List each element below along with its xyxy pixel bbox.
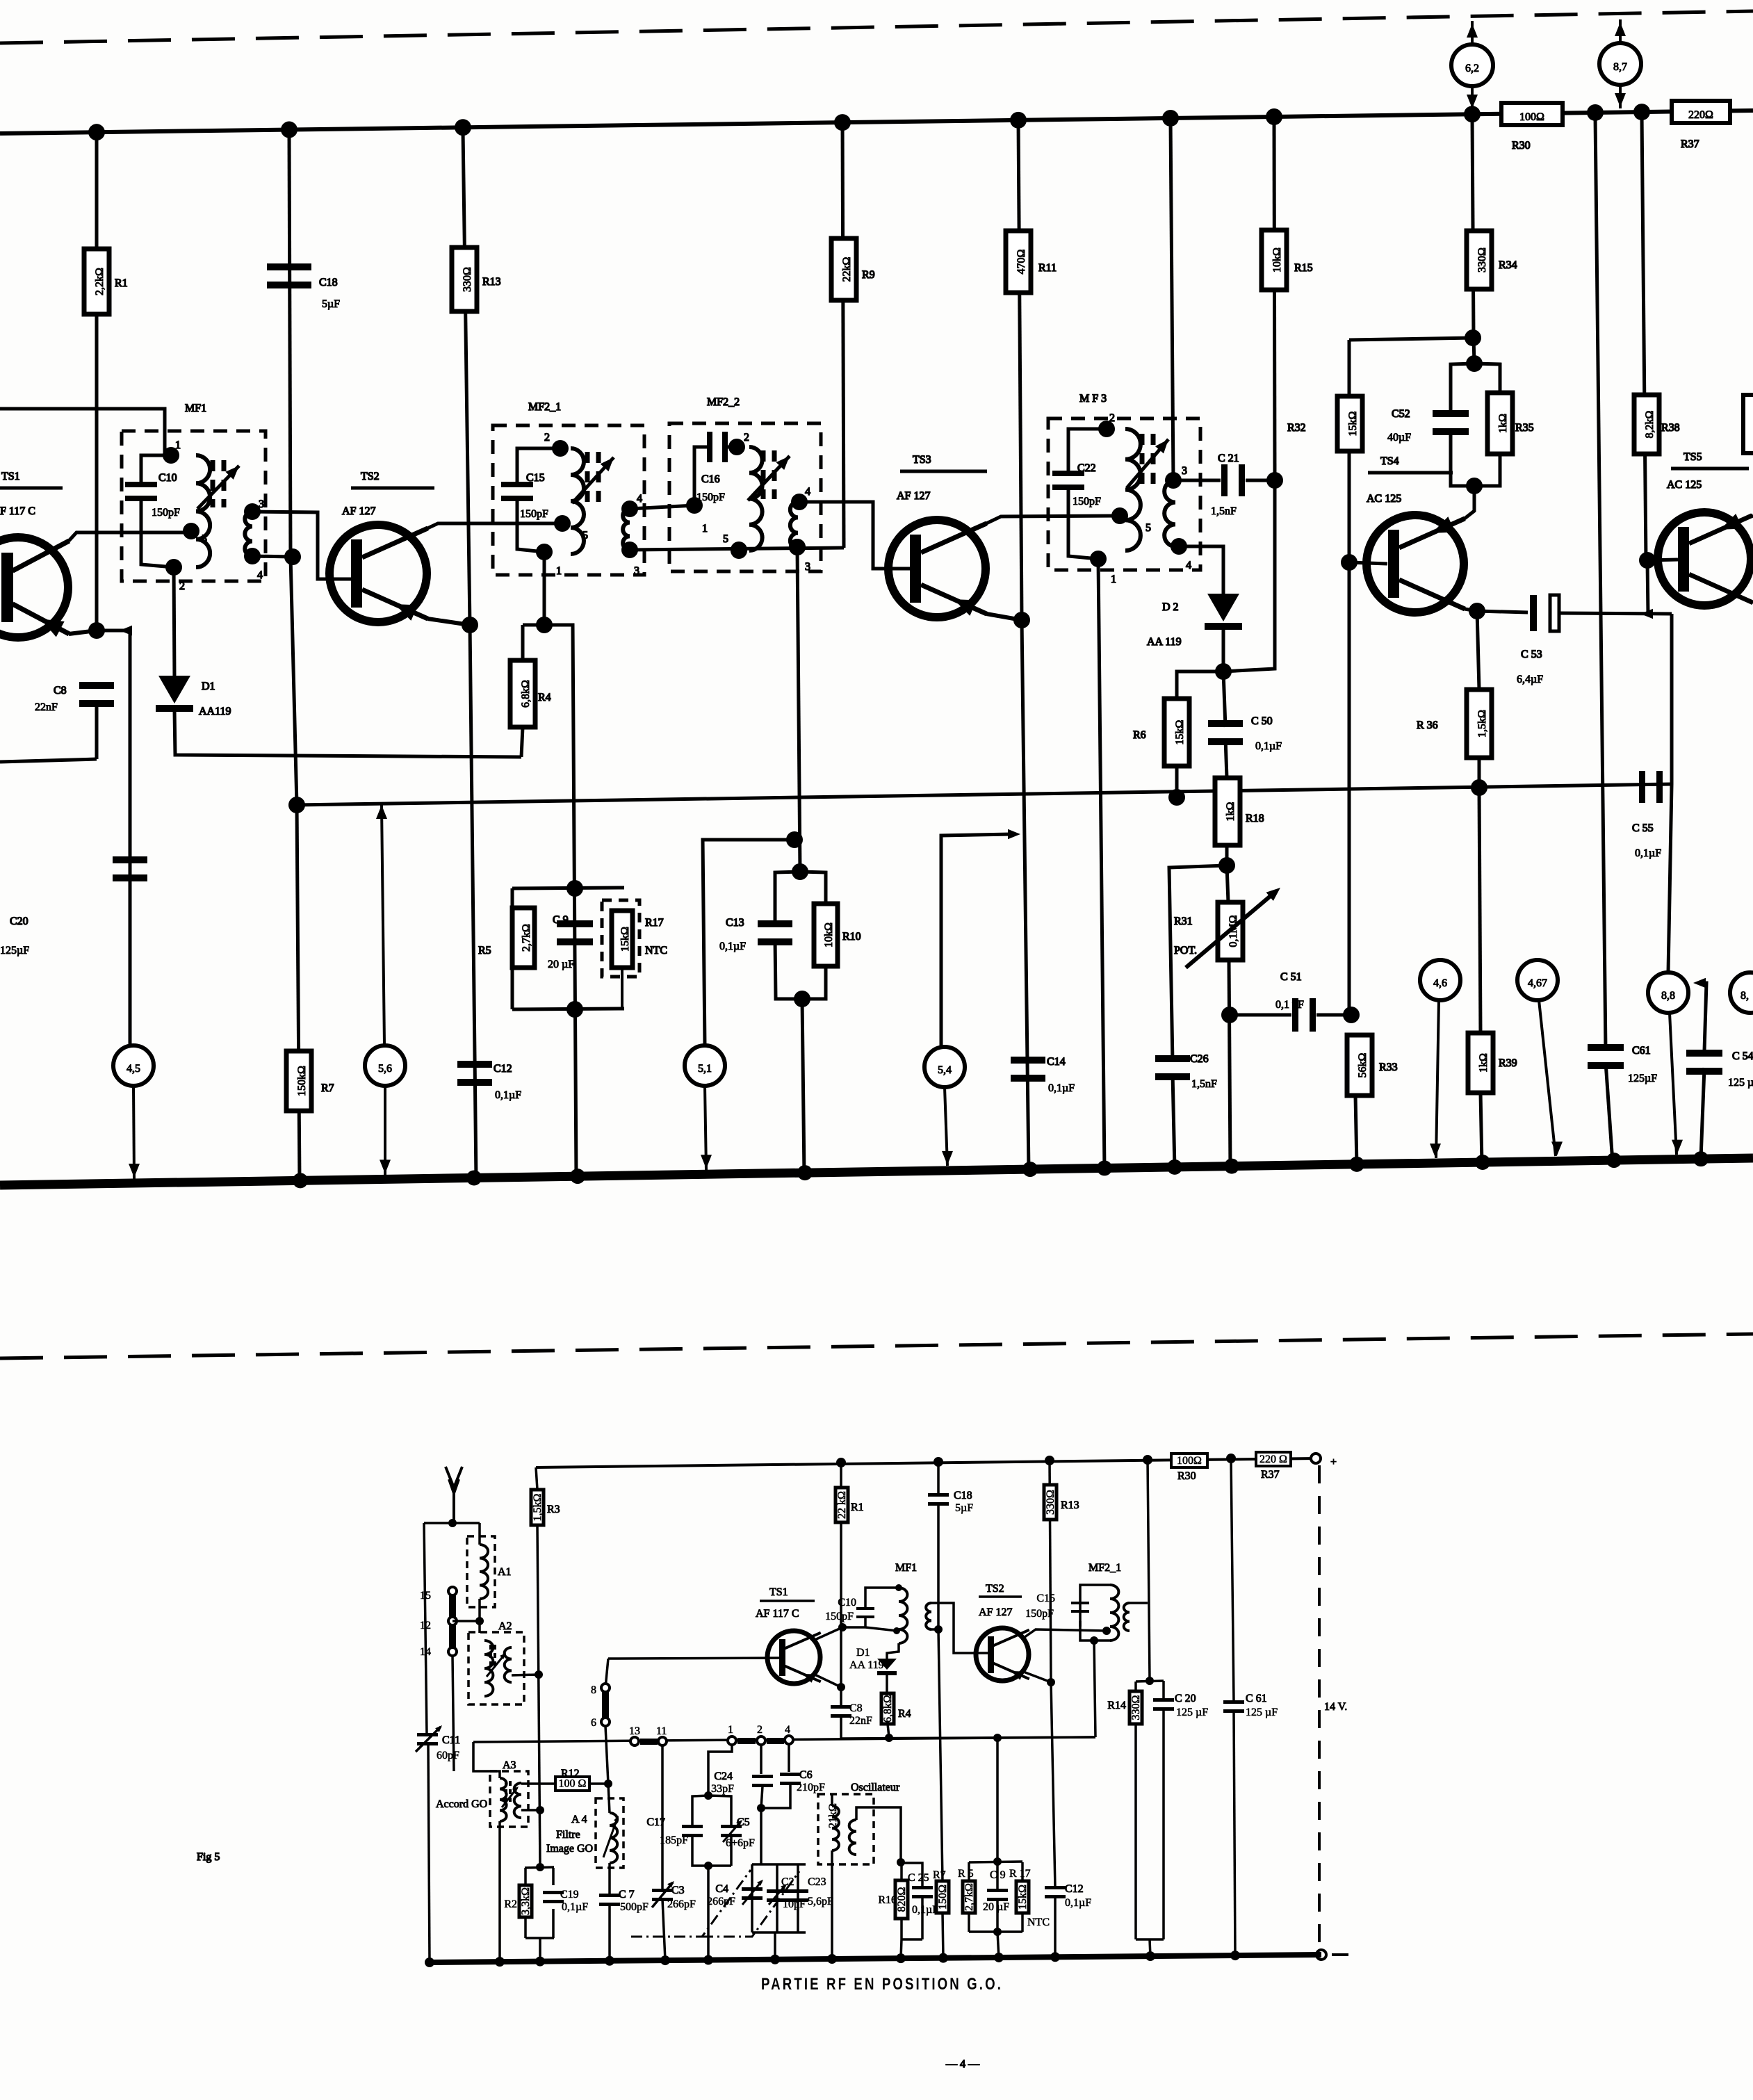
svg-text:C11: C11 (442, 1734, 460, 1746)
wire common line pin3/pin5/pin3 (630, 548, 844, 550)
wire R9 column (842, 118, 844, 548)
wire C54 up to 8,8 arrow (1697, 983, 1706, 1051)
svg-text:C12: C12 (494, 1063, 512, 1075)
svg-text:100Ω: 100Ω (1177, 1455, 1202, 1467)
svg-text:R1: R1 (851, 1501, 864, 1513)
AGC rail horizontal (297, 784, 1672, 805)
resistor R32 15k (1337, 396, 1362, 451)
svg-text:R37: R37 (1261, 1469, 1280, 1481)
junction on ground bus x=2447 (1693, 1151, 1709, 1166)
wire C8 to left rail (95, 700, 99, 759)
svg-text:C23: C23 (808, 1876, 826, 1888)
wire TS5 emitter off page (1751, 601, 1753, 603)
capacitor C14 0,1uF (1011, 1057, 1045, 1064)
svg-text:12: 12 (420, 1620, 431, 1631)
svg-text:R 17: R 17 (1009, 1868, 1031, 1880)
svg-text:4: 4 (637, 493, 642, 505)
capacitor C26 1,5nF (1155, 1055, 1190, 1062)
wire C52 node to TS4 emitter (1465, 486, 1474, 519)
svg-text:AA 119: AA 119 (849, 1659, 884, 1671)
svg-text:100Ω: 100Ω (1519, 111, 1544, 123)
svg-text:C5: C5 (737, 1816, 750, 1828)
capacitor C51 0,1uF to TS4 base (1230, 1014, 1291, 1017)
svg-text:8,8: 8,8 (1661, 990, 1675, 1002)
svg-text:R38: R38 (1661, 422, 1680, 434)
svg-text:5: 5 (202, 533, 207, 545)
svg-text:150pF: 150pF (1073, 496, 1101, 507)
fig5 C4/C2/C23 tuning gang block (752, 1863, 806, 1866)
svg-text:1: 1 (728, 1724, 733, 1736)
resistor R37 220 ohm (1672, 101, 1730, 123)
wire MF3 pin4 to D2 (1179, 546, 1223, 595)
svg-text:56kΩ: 56kΩ (1357, 1052, 1369, 1077)
svg-text:C52: C52 (1392, 408, 1410, 420)
wire R32 top to R34 column (1349, 338, 1473, 340)
capacitor C8 22nF (79, 682, 114, 689)
svg-text:14 V.: 14 V. (1324, 1701, 1347, 1713)
svg-text:4,67: 4,67 (1528, 977, 1547, 989)
wire detector node to R6 (1177, 671, 1223, 699)
wire TS1 emitter diagonal to node (69, 630, 97, 634)
resistor R18 1k (1215, 778, 1240, 845)
svg-text:6,2: 6,2 (1465, 63, 1479, 74)
junction on supply rail x=1465 (1010, 112, 1027, 129)
fig5 capacitor C12 0,1uF (1045, 1886, 1066, 1889)
svg-text:C15: C15 (1036, 1593, 1055, 1604)
fig5 base wire TS1 and terminals 8 6 (608, 1658, 784, 1659)
junction on supply rail x=666 (455, 119, 471, 136)
fig5 14V dashed feed line (1318, 1465, 1321, 1951)
svg-text:C15: C15 (526, 472, 545, 484)
junction on ground bus x=682 (466, 1170, 482, 1185)
svg-text:22kΩ: 22kΩ (841, 257, 853, 282)
svg-text:Accord GO: Accord GO (436, 1798, 487, 1810)
svg-text:2: 2 (1109, 412, 1115, 424)
fig5 coil A3 box Accord GO (490, 1771, 528, 1827)
capacitor C50 0,1uF (1223, 671, 1225, 727)
resistor R39 1k (1479, 788, 1481, 1033)
wire R38 node to C53 node (1647, 560, 1648, 614)
svg-text:AF 127: AF 127 (897, 490, 930, 502)
svg-text:4: 4 (785, 1724, 790, 1736)
svg-text:AF 127: AF 127 (979, 1606, 1012, 1618)
transistor TS1 AF117C (0, 537, 68, 637)
wire TS5 collector off page (1751, 515, 1753, 516)
wire TS2 emitter to R13 column (427, 619, 470, 625)
svg-text:R39: R39 (1499, 1057, 1517, 1069)
svg-text:2: 2 (179, 580, 185, 592)
fig5 antenna junction (424, 1522, 480, 1524)
measurement point 4,6 (1420, 960, 1460, 1000)
fig5 lower AGC rail (841, 1737, 1095, 1739)
wire R18 node to C26 (1169, 865, 1227, 1062)
svg-text:11: 11 (656, 1725, 667, 1737)
wire TS3 collector to MF3 pin5 (986, 516, 1118, 523)
junction on ground bus x=1772 (1224, 1159, 1239, 1174)
measurement point 4,67 (1517, 960, 1558, 1000)
junction on supply rail x=139 (88, 124, 105, 140)
MF2.1 tuning trimmer (585, 452, 590, 502)
svg-text:10kΩ: 10kΩ (823, 922, 835, 947)
svg-text:220 Ω: 220 Ω (1259, 1454, 1287, 1465)
fig5 wire A2 to R3 column (512, 1675, 539, 1675)
svg-text:820Ω: 820Ω (896, 1887, 908, 1912)
diode D2 AA119 (1207, 594, 1239, 621)
svg-text:C8: C8 (54, 685, 67, 697)
svg-text:TS4: TS4 (1380, 455, 1399, 467)
svg-text:Filtre: Filtre (556, 1829, 580, 1841)
wire emitter node to measurement column with arrow (97, 629, 130, 633)
svg-text:8,2kΩ: 8,2kΩ (1644, 410, 1656, 438)
wire TS1 base feed to MF1 pin1 (0, 409, 170, 455)
svg-text:MF1: MF1 (895, 1562, 917, 1574)
wire R13 column (463, 131, 470, 625)
fig5 minus terminal (1316, 1950, 1326, 1960)
svg-text:3: 3 (805, 561, 810, 573)
svg-text:5: 5 (723, 533, 728, 545)
svg-text:2,2kΩ: 2,2kΩ (94, 268, 106, 295)
MF2.1 primary coil (571, 448, 584, 554)
svg-text:10pF: 10pF (783, 1898, 806, 1910)
fig5 wire terminal 12 to A2 (452, 1620, 480, 1622)
capacitor C9 20uF (557, 920, 593, 927)
svg-text:6: 6 (591, 1717, 596, 1729)
wire TS4 collector node (1465, 609, 1477, 611)
capacitor C10 150pF loop (141, 455, 170, 487)
svg-text:22nF: 22nF (35, 701, 58, 713)
svg-text:0,1 uF: 0,1 uF (1275, 999, 1304, 1011)
fig5 coil A1 dashed box (467, 1536, 495, 1607)
wire C61 column from supply (1595, 115, 1606, 1051)
svg-text:22 kΩ: 22 kΩ (836, 1491, 848, 1519)
MF2.2 tuning trimmer (761, 450, 766, 499)
svg-text:C16: C16 (701, 473, 720, 485)
fig5 plus terminal (1311, 1454, 1321, 1463)
svg-text:R4: R4 (898, 1708, 911, 1720)
resistor R6 15k (1164, 699, 1189, 766)
svg-text:330Ω: 330Ω (462, 267, 473, 292)
svg-text:C18: C18 (319, 277, 338, 288)
svg-text:8,: 8, (1740, 990, 1749, 1002)
svg-text:0,1µF: 0,1µF (495, 1089, 521, 1101)
svg-text:POT.: POT. (1174, 945, 1197, 957)
resistor R5 2,7k (511, 888, 514, 908)
arrow into ground bus x=2240 (1551, 1141, 1563, 1155)
wire MF1 pin2 to D1 (174, 567, 174, 678)
junction on ground bus x=1690 (1167, 1159, 1182, 1175)
IF transformer MF3 dashed box (1048, 418, 1200, 570)
junction on ground bus x=1482 (1022, 1162, 1038, 1177)
svg-text:AC 125: AC 125 (1667, 479, 1702, 491)
svg-text:125µF: 125µF (0, 945, 29, 957)
svg-text:D1: D1 (202, 681, 215, 692)
svg-text:125 µF: 125 µF (1176, 1707, 1208, 1718)
wire R38 column (1642, 114, 1646, 560)
resistor R10 10k (814, 904, 838, 966)
svg-text:C14: C14 (1047, 1056, 1066, 1068)
svg-text:6,8kΩ: 6,8kΩ (520, 680, 532, 708)
fig5 MF1 secondary coil (926, 1603, 931, 1629)
svg-text:R9: R9 (862, 269, 875, 281)
top dashed page-border line (0, 11, 1753, 43)
measurement point 5,4 with arrow to column (941, 834, 1011, 1045)
fig5 capacitor C7 500pF (599, 1894, 620, 1897)
fig5 resistor R13 330 column (1050, 1460, 1051, 1682)
fig5 resistor R4 6,8k (881, 1693, 894, 1724)
capacitor C53 6,4uF (1477, 611, 1528, 612)
wire MF1 pin4 to AGC column (252, 556, 293, 557)
svg-text:A1: A1 (498, 1566, 512, 1578)
svg-text:330Ω: 330Ω (1476, 247, 1488, 272)
transistor TS5 AC125 (1658, 512, 1751, 605)
junction on ground bus x=1589 (1097, 1160, 1112, 1175)
svg-text:C24: C24 (714, 1771, 733, 1782)
fig5 C17/C5 block (708, 1745, 732, 1796)
svg-text:4: 4 (1186, 560, 1191, 571)
fig5 C11 column (424, 1523, 427, 1735)
svg-text:15kΩ: 15kΩ (1017, 1885, 1029, 1910)
svg-text:22nF: 22nF (849, 1715, 872, 1727)
capacitor C20 125uF (113, 856, 147, 863)
svg-text:2: 2 (744, 432, 749, 443)
transistor TS2 AF127 (329, 525, 427, 622)
fig5 diode D1 AA119 (877, 1659, 897, 1670)
arrow into ground bus x=2413 (1672, 1140, 1683, 1154)
resistor R4 6,8k (521, 727, 523, 757)
svg-text:5: 5 (582, 530, 588, 542)
IF transformer MF2.2 dashed box (669, 423, 821, 571)
measurement point 6,2 with arrows to rails (1471, 21, 1474, 110)
svg-text:C19: C19 (560, 1889, 579, 1900)
svg-text:6,4µF: 6,4µF (1517, 674, 1543, 685)
svg-text:C 7: C 7 (619, 1889, 635, 1900)
svg-text:R4: R4 (538, 692, 551, 703)
svg-text:R10: R10 (842, 931, 861, 943)
fig5 R2/C19 block (536, 1863, 544, 1871)
fig5 gang link dash-dot lines (631, 1870, 751, 1937)
svg-text:R5: R5 (478, 945, 491, 957)
svg-text:R14: R14 (1107, 1700, 1126, 1711)
capacitor C18 5uF (267, 263, 311, 270)
supply rail (top horizontal line) (0, 111, 1753, 133)
svg-text:F 117 C: F 117 C (0, 505, 35, 517)
svg-text:R1: R1 (115, 277, 128, 289)
wire to measurement 5,1 (703, 840, 794, 1045)
svg-text:C 54: C 54 (1732, 1050, 1753, 1062)
svg-text:5µF: 5µF (322, 298, 340, 310)
resistor R38 8,2k (1634, 395, 1659, 454)
svg-text:R33: R33 (1379, 1061, 1398, 1073)
fig5 TS1 collector wire to MF1 (813, 1627, 865, 1641)
fig5 resistor R37 220ohm (1256, 1452, 1291, 1466)
svg-text:1: 1 (702, 523, 708, 535)
svg-text:TS2: TS2 (986, 1583, 1004, 1595)
svg-text:5: 5 (1145, 522, 1151, 534)
svg-text:5,6: 5,6 (378, 1063, 392, 1075)
fig5 TS1 emitter to C8 (813, 1674, 841, 1687)
svg-text:C 9: C 9 (553, 914, 569, 926)
svg-text:R16: R16 (878, 1894, 897, 1906)
resistor R34 330 column (1472, 115, 1474, 338)
svg-text:266pF: 266pF (707, 1896, 735, 1907)
rail to C20 area (left edge) (0, 759, 97, 762)
svg-text:0,1µF: 0,1µF (1255, 740, 1282, 752)
resistor R36 1,5k (1477, 611, 1479, 690)
junction on ground bus x=831 (570, 1169, 585, 1184)
svg-text:1: 1 (556, 565, 562, 577)
svg-text:330Ω: 330Ω (1045, 1490, 1057, 1515)
fig5 wire A3 to ground bus (498, 1821, 501, 1962)
resistor R7 150k (297, 805, 300, 1182)
wire C18 column (289, 131, 291, 557)
svg-text:A 4: A 4 (571, 1814, 587, 1825)
svg-text:100 Ω: 100 Ω (559, 1778, 587, 1790)
IF transformer MF2.1 dashed box (493, 425, 644, 575)
svg-text:1kΩ: 1kΩ (1478, 1053, 1490, 1073)
fig5 Oscillateur box (818, 1794, 874, 1864)
svg-text:AF 117 C: AF 117 C (756, 1608, 799, 1620)
fig5 MF2.1 pin1 column down (1094, 1641, 1095, 1737)
svg-text:C4: C4 (715, 1883, 728, 1895)
wire C53 to TS5 base node (1558, 613, 1672, 614)
junction on supply rail x=1684 (1162, 110, 1179, 127)
svg-text:R31: R31 (1174, 915, 1193, 927)
wire R15 column down to detector node (1223, 480, 1275, 671)
capacitor C52 40uF (1433, 410, 1469, 417)
svg-text:D1: D1 (856, 1647, 870, 1659)
svg-text:4: 4 (805, 486, 810, 498)
svg-text:R17: R17 (645, 917, 664, 929)
svg-text:1,5nF: 1,5nF (1191, 1078, 1217, 1090)
wire D1 to R4 bottom rail (174, 710, 521, 757)
svg-text:R11: R11 (1038, 262, 1057, 274)
svg-text:2: 2 (544, 432, 550, 443)
wire TS2 collector to MF2.1 pin5 (427, 523, 560, 528)
capacitor C13 0,1uF (758, 920, 792, 927)
wire MF2.1 pin1 down to R4 node (543, 552, 546, 625)
junction on ground bus x=2133 (1475, 1155, 1490, 1170)
svg-text:R3: R3 (547, 1504, 560, 1515)
fig5 wire link to A3 (473, 1742, 500, 1778)
capacitor C16 150pF horizontal (694, 447, 707, 505)
svg-text:PARTIE RF EN POSITION G.O.: PARTIE RF EN POSITION G.O. (761, 1975, 1003, 1994)
svg-text:Image GO: Image GO (546, 1843, 593, 1855)
MF1 tuning trimmer (211, 460, 215, 507)
svg-text:AC 125: AC 125 (1367, 493, 1401, 505)
svg-text:13: 13 (629, 1725, 640, 1737)
svg-text:1,5nF: 1,5nF (1211, 505, 1237, 517)
measurement point 4,5 (113, 1045, 154, 1086)
arrow into ground bus x=1016 (701, 1155, 712, 1169)
svg-text:500pF: 500pF (620, 1901, 649, 1913)
resistor R1 2,2k (84, 249, 109, 314)
measurement point 8,7 with arrows (1619, 19, 1622, 108)
fig5 resistor R30 100ohm (1171, 1454, 1207, 1467)
MF2.2 primary coil (749, 447, 763, 551)
wire MF2.1 pin4 to MF2.2 pin1 (630, 505, 694, 509)
svg-text:2,7kΩ: 2,7kΩ (521, 924, 532, 952)
svg-text:1,5kΩ: 1,5kΩ (532, 1493, 544, 1521)
svg-text:150pF: 150pF (152, 507, 180, 519)
svg-text:3: 3 (1182, 465, 1187, 477)
svg-text:3: 3 (259, 498, 264, 510)
svg-text:150pF: 150pF (520, 508, 548, 520)
svg-text:R34: R34 (1499, 259, 1517, 271)
wire measurement column 4,5 (129, 630, 132, 1045)
svg-text:210pF: 210pF (797, 1782, 825, 1793)
svg-text:NTC: NTC (645, 945, 667, 957)
svg-text:R35: R35 (1515, 422, 1534, 434)
svg-text:330Ω: 330Ω (1130, 1695, 1142, 1720)
svg-text:33pF: 33pF (711, 1783, 734, 1795)
potentiometer R31 0,1M POT (1227, 865, 1228, 902)
svg-text:TS1: TS1 (1, 471, 20, 482)
svg-text:1: 1 (175, 439, 181, 451)
wire R11 column (1018, 119, 1022, 620)
junction on supply rail x=1212 (834, 114, 851, 131)
svg-text:20 µF: 20 µF (983, 1901, 1009, 1913)
arrow into ground bus x=554 (380, 1159, 391, 1173)
svg-text:MF2_1: MF2_1 (528, 401, 561, 413)
svg-text:C 21: C 21 (1218, 453, 1239, 464)
MF1 primary coil (196, 455, 210, 567)
MF3 tuning trimmer (1140, 434, 1145, 487)
fig5 top supply rail (536, 1458, 1316, 1467)
fig5 C24/C6 pair (760, 1745, 763, 1774)
svg-text:R37: R37 (1681, 138, 1699, 150)
bias block bottom rail (512, 1009, 624, 1009)
svg-text:NTC: NTC (1027, 1916, 1050, 1928)
resistor R33 56k (1347, 1035, 1372, 1096)
junction on ground bus x=2322 (1606, 1153, 1622, 1168)
svg-text:R32: R32 (1287, 422, 1306, 434)
fig5 capacitor C18 5uF column (937, 1462, 940, 1495)
svg-text:150pF: 150pF (825, 1611, 854, 1622)
fig5 antenna (446, 1467, 462, 1523)
MF3 primary coil (1125, 429, 1141, 551)
svg-text:C6: C6 (799, 1769, 813, 1781)
svg-text:0,1µF: 0,1µF (1065, 1897, 1091, 1909)
svg-text:C17: C17 (646, 1816, 665, 1828)
svg-text:150Ω: 150Ω (937, 1885, 949, 1910)
svg-text:R30: R30 (1177, 1470, 1196, 1482)
svg-text:4,5: 4,5 (127, 1063, 140, 1075)
svg-text:R12: R12 (561, 1768, 580, 1780)
fig5 coil A4 Filtre Image GO (596, 1798, 623, 1868)
svg-text:Oscillateur: Oscillateur (851, 1782, 900, 1793)
svg-text:TS1: TS1 (769, 1586, 788, 1598)
svg-text:150pF: 150pF (696, 491, 725, 503)
fig5 capacitor C3 266pF variable (661, 1746, 664, 1891)
svg-text:125 µF: 125 µF (1246, 1707, 1278, 1718)
junction on ground bus x=1952 (1349, 1157, 1364, 1172)
svg-text:AA119: AA119 (199, 706, 231, 717)
wire detector column down to C13/R10 (797, 547, 800, 872)
svg-text:125 µ: 125 µ (1728, 1077, 1753, 1089)
svg-text:3: 3 (634, 565, 639, 577)
junction on ground bus x=1158 (797, 1165, 813, 1180)
svg-text:4: 4 (257, 569, 263, 581)
transistor TS3 AF127 (888, 520, 986, 617)
svg-text:R7: R7 (321, 1082, 334, 1094)
resistor R17 NTC (dashed) (602, 900, 639, 977)
capacitor C12 0,1uF (457, 1061, 492, 1068)
svg-text:1,5kΩ: 1,5kΩ (1476, 710, 1488, 738)
svg-text:40µF: 40µF (1387, 432, 1411, 443)
svg-text:C61: C61 (1632, 1045, 1651, 1057)
junction on supply rail x=2295 (1587, 104, 1604, 121)
ground bus (thick bottom line) (0, 1158, 1753, 1185)
